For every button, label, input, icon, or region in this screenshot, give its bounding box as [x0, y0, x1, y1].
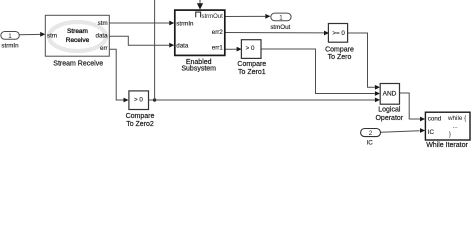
wire inport1 to Stream Receive: [19, 33, 41, 35]
wire arrowhead into cond: [420, 117, 425, 122]
node junction dot: [153, 98, 156, 101]
wire data (Stream Receive to Enabled Subsystem data): [109, 36, 169, 45]
wire arrowhead into AND input 2: [375, 91, 380, 96]
wire err (Stream Receive down to Compare To Zero2): [109, 49, 123, 100]
wire arrowhead into Compare To Zero2: [124, 98, 129, 103]
svg-text:> 0: > 0: [246, 45, 255, 52]
svg-text:stm: stm: [98, 20, 108, 27]
wire arrowhead into strmIn: [169, 21, 174, 26]
svg-text:Compare: Compare: [325, 46, 354, 53]
wire Compare To Zero output to AND top input: [348, 33, 375, 87]
svg-text:Subsystem: Subsystem: [181, 65, 216, 72]
svg-text:IC: IC: [367, 139, 374, 146]
svg-text:strmOut: strmOut: [201, 14, 223, 20]
svg-text:While Iterator: While Iterator: [426, 142, 468, 148]
svg-text:To Zero: To Zero: [328, 54, 352, 61]
svg-text:strmIn: strmIn: [1, 42, 19, 49]
svg-text:>= 0: >= 0: [332, 30, 345, 37]
svg-text:Compare: Compare: [126, 113, 155, 120]
svg-text:Stream Receive: Stream Receive: [53, 60, 103, 67]
svg-text:err: err: [100, 45, 108, 52]
svg-text:Stream: Stream: [67, 28, 88, 35]
block AND Logical Operator: [380, 84, 399, 105]
svg-text:}: }: [449, 131, 451, 138]
svg-text:data: data: [176, 43, 189, 50]
wire arrowhead into outport: [265, 14, 270, 19]
wire arrowhead into Compare To Zero: [324, 31, 329, 36]
wire AND output to While Iterator cond: [400, 93, 421, 119]
wire arrowhead down into enable port: [197, 3, 203, 9]
block label Logical Operator: [375, 107, 403, 122]
svg-text:AND: AND: [383, 91, 397, 98]
svg-text:cond: cond: [428, 115, 442, 122]
wire enable stem from top edge: [199, 0, 201, 3]
svg-text:stmOut: stmOut: [270, 24, 290, 31]
block Compare To Zero1: [241, 40, 261, 59]
svg-text:IC: IC: [428, 129, 435, 136]
outport 1 oval: [271, 13, 291, 21]
block Compare To Zero2: [129, 91, 149, 110]
block label Compare To Zero2: [126, 113, 155, 128]
wire arrowhead into AND input 3: [375, 98, 380, 103]
wire inport2 to While Iterator IC: [381, 131, 420, 133]
enable pulse icon: [196, 12, 201, 17]
svg-text:Operator: Operator: [375, 115, 403, 122]
svg-text:stm: stm: [47, 33, 57, 40]
svg-text:1: 1: [279, 14, 283, 21]
block Compare To Zero: [328, 24, 347, 43]
wire branch up from junction to top edge: [154, 0, 156, 100]
svg-text:Compare: Compare: [237, 61, 266, 68]
inport 2 oval: [361, 129, 381, 138]
wire err2 to Compare To Zero: [225, 32, 324, 34]
svg-text:To Zero2: To Zero2: [126, 121, 154, 128]
wire arrowhead into data: [169, 43, 174, 48]
wire Compare To Zero1 output to AND middle input: [261, 49, 375, 94]
wire arrowhead into Compare To Zero1: [237, 47, 242, 52]
block Enabled Subsystem: [175, 10, 225, 55]
wire arrowhead into AND input 1: [375, 85, 380, 90]
svg-text:2: 2: [369, 130, 373, 137]
svg-text:strmIn: strmIn: [176, 20, 194, 27]
svg-text:1: 1: [8, 33, 12, 40]
wire strmOut to outport oval: [225, 15, 265, 17]
block While Iterator: [425, 112, 470, 140]
svg-text:Logical: Logical: [378, 107, 401, 114]
wire err1 to Compare To Zero1: [225, 48, 237, 50]
block label Compare To Zero: [325, 46, 354, 61]
svg-text:To Zero1: To Zero1: [238, 69, 266, 76]
wire Compare To Zero2 output long run to AND bottom input: [149, 99, 375, 101]
wire arrowhead into IC: [420, 128, 425, 133]
block label Compare To Zero1: [237, 61, 266, 76]
svg-text:...: ...: [453, 123, 458, 130]
block label Enabled Subsystem: [181, 59, 216, 72]
wire arrowhead into Stream Receive stm: [40, 32, 45, 37]
svg-text:Receive: Receive: [66, 37, 90, 44]
svg-text:data: data: [96, 32, 109, 39]
svg-text:err2: err2: [212, 29, 224, 36]
inport 1 oval: [1, 32, 20, 41]
svg-text:while {: while {: [447, 115, 466, 122]
svg-text:> 0: > 0: [134, 96, 143, 103]
wire stm (Stream Receive to Enabled Subsystem strmIn): [109, 22, 169, 24]
block Stream Receive: [45, 15, 109, 56]
svg-text:err1: err1: [212, 44, 224, 51]
